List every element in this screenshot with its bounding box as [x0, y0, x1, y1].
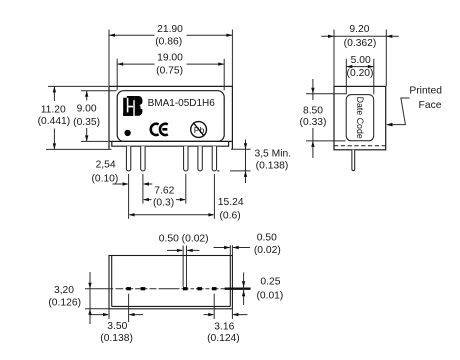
svg-text:8.50: 8.50 — [303, 105, 323, 116]
left outer edge extension below — [108, 309, 110, 319]
pin 4 pad mark — [197, 287, 202, 290]
svg-text:(0.10): (0.10) — [91, 174, 118, 185]
svg-text:(0.02): (0.02) — [254, 245, 281, 256]
arrowheads 2.54 — [123, 182, 129, 185]
svg-text:19.00: 19.00 — [157, 52, 183, 63]
pin 2 pad mark — [141, 287, 146, 290]
arrowheads 0.50 center — [177, 249, 183, 252]
right outer edge extension below — [231, 309, 233, 319]
dimension 9.00 line — [86, 91, 88, 142]
pin 5 extension below (bottom view) — [213, 294, 215, 319]
CE mark — [151, 124, 168, 135]
pin 3 extension line below — [185, 174, 187, 204]
pin 1 extension below (bottom view) — [128, 294, 130, 322]
module label face rounded rectangle — [117, 91, 224, 142]
manufacturer logo — [123, 96, 143, 116]
module case outline (left wall, top, right wall) — [109, 86, 232, 149]
arrowheads 19.00 — [117, 62, 123, 65]
dimension 0.50 center lines — [167, 249, 200, 251]
svg-text:Printed: Printed — [409, 85, 442, 96]
dimension 8.50 extension lines — [306, 94, 346, 141]
arrowheads 21.90 — [109, 34, 115, 37]
pin 2 (front view) — [141, 146, 145, 171]
arrowheads 5.00 — [346, 65, 352, 68]
arrowheads 9.00 — [85, 91, 88, 97]
dimension 3.20 line — [89, 272, 91, 324]
dimension 3.5 min line — [245, 140, 247, 184]
dimension 3.5 min extension lines — [217, 149, 250, 171]
arrowheads 3.16 — [208, 313, 214, 316]
svg-text:3.16: 3.16 — [214, 321, 234, 332]
svg-text:7.62: 7.62 — [154, 186, 174, 197]
dimension 0.50 right lines — [214, 247, 251, 249]
svg-text:(0.138): (0.138) — [256, 161, 289, 172]
dimension 5.00 line — [346, 66, 374, 68]
printed face leader arrowhead — [386, 123, 393, 127]
right edge extension lines above — [230, 245, 232, 255]
Pb-free symbol — [191, 122, 207, 138]
svg-text:(0.01): (0.01) — [256, 291, 283, 302]
pin 3 pad mark — [183, 287, 188, 290]
arrowheads 0.50 right — [224, 246, 230, 249]
svg-text:11.20: 11.20 — [41, 105, 66, 116]
dimension 19.00 extension lines — [117, 59, 224, 91]
svg-text:(0.441): (0.441) — [38, 116, 71, 127]
svg-text:(0.33): (0.33) — [300, 117, 327, 128]
svg-text:3,20: 3,20 — [54, 285, 74, 296]
dimension 3.16 lines — [204, 314, 248, 316]
svg-text:(0.362): (0.362) — [344, 38, 377, 49]
pin 1 indicator dot — [124, 130, 130, 136]
arrowheads 3.20 — [88, 283, 91, 289]
svg-text:BMA1-05D1H6: BMA1-05D1H6 — [148, 98, 216, 109]
svg-text:(0.124): (0.124) — [207, 333, 240, 344]
arrowheads 0.25 — [242, 281, 245, 287]
dimension 9.20 extension lines — [334, 30, 386, 87]
svg-text:(0.86): (0.86) — [155, 36, 182, 47]
svg-text:2,54: 2,54 — [96, 159, 116, 170]
arrowheads 9.20 — [328, 35, 334, 38]
svg-text:15.24: 15.24 — [218, 197, 244, 208]
pin 5 extension line below — [213, 174, 215, 219]
dimension 11.20 extension lines — [46, 86, 112, 149]
arrowheads 7.62 — [143, 198, 149, 201]
svg-text:(0.138): (0.138) — [100, 333, 133, 344]
dimension 21.90 line — [109, 34, 232, 36]
svg-text:(0.35): (0.35) — [73, 117, 100, 128]
svg-text:5.00: 5.00 — [351, 55, 371, 66]
bottom view inner right wall line — [229, 256, 231, 307]
arrowheads 8.50 — [311, 88, 314, 94]
pin row centerline (dash-dot) — [85, 288, 225, 290]
svg-text:(0.75): (0.75) — [156, 66, 183, 77]
module recessed bottom step — [112, 141, 229, 146]
pin 1 (front view) — [126, 146, 130, 171]
svg-text:9.00: 9.00 — [77, 103, 97, 114]
pin 3 (front view) — [184, 146, 188, 171]
side view bottom parting dashed line — [334, 145, 386, 147]
pin 5 pad mark — [212, 287, 217, 290]
side view pin — [352, 150, 355, 171]
dimension 19.00 line — [117, 63, 224, 65]
svg-text:9.20: 9.20 — [349, 24, 369, 35]
dimension 11.20 line — [53, 86, 55, 149]
dimension 9.20 line — [321, 35, 399, 37]
dimension 9.00 extension lines — [81, 91, 117, 142]
pin cross-section thick segment — [225, 288, 251, 290]
dimension 21.90 extension lines — [109, 30, 232, 87]
pin 4 (front view) — [198, 146, 202, 171]
svg-text:0.25: 0.25 — [260, 277, 280, 288]
dimension 7.62 line — [144, 199, 185, 201]
svg-text:(0.126): (0.126) — [48, 297, 81, 308]
module face bottom edge — [109, 140, 232, 142]
dot at pin 5 tip level — [217, 170, 219, 171]
svg-text:Date Code: Date Code — [355, 97, 365, 139]
arrowheads 15.24 — [129, 213, 135, 216]
arrowheads 3.5 min — [244, 143, 247, 149]
svg-text:(0.3): (0.3) — [153, 198, 174, 209]
svg-text:0.50: 0.50 — [257, 232, 277, 243]
side view case outline — [334, 86, 386, 149]
svg-text:3.50: 3.50 — [107, 321, 127, 332]
arrowheads 3.50 — [103, 313, 109, 316]
dimension 2.54 lines — [113, 183, 153, 185]
svg-text:(0.20): (0.20) — [347, 68, 374, 79]
svg-text:3,5 Min.: 3,5 Min. — [254, 148, 291, 159]
dimension 0.25 line — [243, 272, 245, 305]
printed face leader line — [388, 98, 410, 125]
pin 2 extension line below — [142, 174, 144, 204]
bottom view outer rectangle — [109, 256, 232, 309]
pin 1 pad mark — [126, 287, 131, 290]
svg-text:(0.6): (0.6) — [220, 210, 241, 221]
bottom view inner left wall line — [111, 256, 113, 307]
dimension 5.00 extension lines — [346, 59, 374, 94]
svg-text:Face: Face — [419, 100, 442, 111]
dimension 15.24 line — [130, 214, 214, 216]
bottom edge left extension line — [85, 308, 109, 310]
center pin width extension lines — [183, 246, 186, 288]
bottom view inner bottom wall line — [112, 305, 231, 307]
arrowheads 11.20 — [53, 86, 56, 92]
pin 5 (front view) — [212, 146, 216, 171]
svg-text:21.90: 21.90 — [157, 24, 183, 35]
pin 1 extension line below — [128, 174, 130, 219]
date code rounded rectangle — [346, 95, 374, 141]
dimension 3.50 lines — [91, 314, 144, 316]
svg-text:0.50 (0.02): 0.50 (0.02) — [159, 233, 209, 244]
dimension 8.50 line — [312, 79, 314, 158]
